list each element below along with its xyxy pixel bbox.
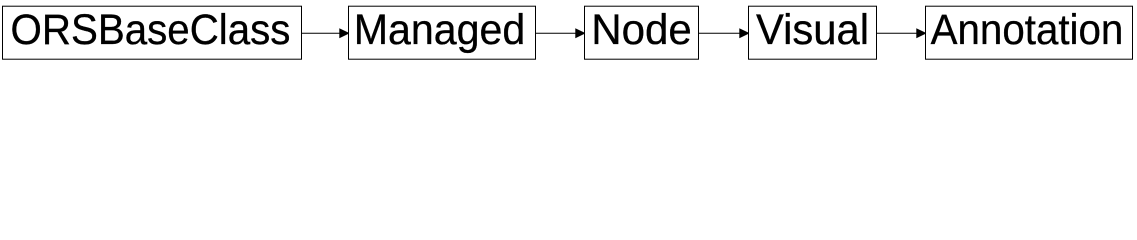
- wire edge ORSBaseClass to Managed: [302, 32, 341, 34]
- node ORSBaseClass box: [3, 6, 302, 59]
- node Visual box: [749, 6, 877, 59]
- arrowhead edge3: [740, 29, 749, 37]
- arrowhead edge1: [340, 29, 349, 37]
- wire edge Managed to Node: [536, 32, 577, 34]
- arrowhead edge4: [917, 29, 926, 37]
- wire edge Node to Visual: [699, 32, 741, 34]
- svg-text:Node: Node: [591, 7, 692, 54]
- node Managed box: [349, 6, 536, 59]
- node Node box: [585, 6, 699, 59]
- node Annotation box: [926, 6, 1133, 59]
- wire edge Visual to Annotation: [877, 32, 918, 34]
- svg-text:Managed: Managed: [354, 7, 526, 54]
- svg-text:Visual: Visual: [756, 7, 869, 54]
- svg-text:ORSBaseClass: ORSBaseClass: [11, 7, 291, 54]
- arrowhead edge2: [576, 29, 585, 37]
- svg-text:Annotation: Annotation: [931, 7, 1124, 54]
